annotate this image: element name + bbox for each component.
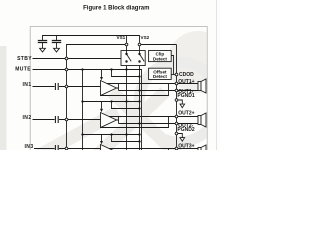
- pin OUT1-: [175, 89, 178, 92]
- rail VA vertical: [82, 70, 84, 151]
- IN3 wire: [34, 148, 101, 150]
- OUT2- wire: [119, 123, 199, 125]
- arrowhead amp2: [100, 109, 103, 113]
- amp2: [101, 113, 117, 128]
- PGND1 ground: [178, 100, 182, 104]
- clip detect box: [149, 51, 172, 62]
- watermark band: [95, 92, 165, 157]
- speaker SP3: [198, 148, 201, 157]
- junction dots: [81, 68, 83, 70]
- pin PGND2: [175, 132, 178, 135]
- bias feed amp3: [83, 134, 140, 136]
- pin IN1: [65, 85, 68, 88]
- pin OUT2-: [175, 122, 178, 125]
- IN2 wire: [33, 119, 101, 121]
- VS1 stub into box: [126, 46, 128, 54]
- rail colB vertical: [139, 62, 141, 151]
- capacitor IN2: [55, 116, 58, 123]
- svg-text:Detect: Detect: [153, 56, 168, 61]
- watermark blob: [167, 31, 229, 93]
- arrowhead amp1: [100, 77, 103, 80]
- capacitor IN1: [55, 83, 58, 90]
- branch3 to colB: [112, 135, 140, 142]
- svg-text:Figure 1 Block diagram: Figure 1 Block diagram: [83, 5, 149, 11]
- right pin column: [176, 45, 178, 151]
- bias arrow amp2 stem: [101, 102, 103, 109]
- pin OUT3+: [175, 147, 178, 150]
- pin VS2: [138, 43, 141, 46]
- IN1 wire: [33, 86, 101, 88]
- svg-text:OUT3+: OUT3+: [178, 144, 194, 150]
- amp3: [101, 145, 117, 160]
- watermark band: [38, 112, 118, 156]
- svg-text:VS2: VS2: [141, 35, 150, 40]
- capacitor C1: [38, 41, 47, 43]
- pin MUTE: [65, 68, 68, 71]
- watermark left bar: [0, 46, 7, 150]
- clip detect wire: [171, 56, 173, 75]
- capacitor IN3: [55, 145, 58, 150]
- switch S1 blade: [127, 54, 132, 61]
- pin PGND1: [175, 99, 178, 102]
- capacitor C2: [52, 41, 61, 43]
- ground under C1: [40, 48, 46, 52]
- svg-text:CDOD: CDOD: [179, 72, 194, 78]
- STBY wire: [33, 58, 122, 60]
- switch box: [121, 51, 145, 66]
- arrowheads: [100, 77, 103, 144]
- bias arrow amp1 stem: [101, 70, 103, 78]
- amp1: [101, 81, 117, 96]
- pin VS1: [125, 43, 128, 46]
- speaker SP2: [198, 116, 201, 125]
- svg-text:PGND1: PGND1: [177, 93, 194, 99]
- watermark ring: [139, 62, 219, 142]
- offset detect box: [149, 68, 172, 79]
- switch contact dots: [81, 53, 140, 143]
- watermark band: [112, 92, 180, 157]
- branch2 to colB: [112, 102, 140, 109]
- page right edge: [216, 0, 218, 150]
- figure frame: [30, 27, 207, 157]
- VS2 wire to right column: [141, 44, 176, 46]
- svg-text:IN1: IN1: [23, 82, 32, 88]
- svg-text:STBY: STBY: [17, 56, 32, 62]
- riser3: [168, 149, 170, 151]
- branch1 to colB: [112, 70, 140, 77]
- svg-text:PGND2: PGND2: [177, 127, 194, 133]
- pin IN2: [65, 118, 68, 121]
- MUTE wire: [33, 70, 142, 151]
- arrowhead amp3: [100, 141, 103, 144]
- OUT3+ wire: [109, 148, 198, 150]
- svg-text:OUT1+: OUT1+: [178, 79, 194, 85]
- svg-text:IN2: IN2: [23, 115, 32, 121]
- rail colA vertical: [126, 62, 128, 151]
- VS2 stub into box: [139, 46, 141, 54]
- ground under C2: [54, 48, 60, 52]
- OUT2+ wire: [109, 116, 198, 118]
- svg-text:IN3: IN3: [25, 144, 34, 150]
- speaker SP1: [198, 82, 201, 91]
- rail stub to VS1: [126, 36, 128, 43]
- labels: [15, 35, 149, 150]
- pin CDOD: [175, 73, 178, 76]
- pin circles: [65, 43, 178, 150]
- OUT1- wire: [119, 90, 199, 92]
- CDOD wire: [171, 74, 175, 76]
- switch S2 blade: [140, 54, 145, 61]
- bias feed amp2: [83, 101, 140, 103]
- rail stub to cap C2: [56, 36, 58, 41]
- feedback1 wire: [101, 84, 169, 96]
- pin OUT2+: [175, 115, 178, 118]
- left pin column: [67, 45, 126, 151]
- pin OUT1+: [175, 82, 178, 85]
- supply rail: [43, 36, 140, 43]
- svg-text:VS1: VS1: [117, 35, 126, 40]
- pin IN3: [65, 147, 68, 150]
- svg-text:Detect: Detect: [153, 74, 168, 79]
- amp1 tip stub: [117, 84, 119, 91]
- svg-text:OUT2+: OUT2+: [178, 110, 194, 116]
- OUT1+ wire: [107, 83, 198, 85]
- bias arrow amp3 stem: [101, 135, 103, 142]
- amp2 tip stub: [117, 117, 119, 124]
- svg-text:MUTE: MUTE: [15, 66, 31, 72]
- feedback2 wire: [101, 117, 169, 128]
- pin STBY: [65, 57, 68, 60]
- PGND2 ground: [178, 134, 182, 138]
